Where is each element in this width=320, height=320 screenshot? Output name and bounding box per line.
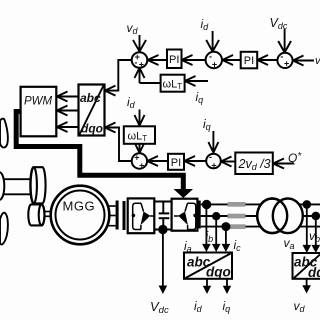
svg-text:PI: PI: [171, 157, 181, 169]
svg-text:+: +: [139, 160, 144, 170]
svg-text:abc: abc: [80, 91, 101, 105]
svg-text:v: v: [315, 55, 320, 67]
svg-text:+: +: [211, 161, 216, 171]
svg-text:+: +: [212, 59, 217, 69]
svg-text:-: -: [134, 58, 137, 68]
svg-text:-: -: [280, 51, 283, 61]
svg-text:PWM: PWM: [24, 96, 53, 108]
svg-text:PI: PI: [244, 55, 254, 67]
svg-text:+: +: [284, 58, 289, 68]
svg-text:dq: dq: [308, 265, 320, 280]
svg-text:PI: PI: [169, 54, 179, 66]
svg-text:dqo: dqo: [81, 122, 103, 136]
svg-text:dqo: dqo: [206, 265, 231, 280]
svg-text:+: +: [139, 60, 144, 70]
svg-text:MGG: MGG: [63, 199, 96, 214]
